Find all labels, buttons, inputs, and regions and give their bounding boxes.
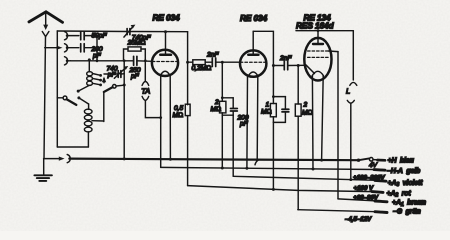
capacitor 2nF (coupling 1) [212, 58, 240, 67]
svg-text:+60–80V: +60–80V [353, 195, 379, 202]
switch S2 (right, regeneration) [92, 77, 126, 122]
svg-text:2nF: 2nF [206, 51, 219, 58]
capacitor 200pF (parallel) [231, 109, 238, 112]
wire: anode U2 to coupling node 2 [253, 31, 273, 65]
coil L2 lower (4 loops) [79, 98, 92, 147]
wire: main bus +H [69, 157, 358, 164]
wire: grid node down to bus [123, 61, 125, 159]
capacitor (parallel with 1MOhm) [282, 109, 289, 112]
capacitor 50pF [81, 32, 97, 40]
variable capacitor 740pF (feedback, top) [124, 25, 135, 37]
wire: left return vertical [56, 31, 58, 147]
switch heater +H [357, 158, 385, 162]
svg-text:MΩ: MΩ [173, 112, 184, 119]
resistor 2MOhm (grid leak U3) [295, 66, 301, 210]
svg-text:2: 2 [214, 99, 219, 106]
svg-text:RES 164d: RES 164d [296, 21, 334, 31]
svg-text:–4,5–12V: –4,5–12V [345, 216, 372, 223]
jack 1 (50pF input) [65, 32, 79, 40]
svg-text:MΩ: MΩ [261, 109, 272, 116]
svg-text:+100–200V: +100–200V [353, 174, 385, 181]
node grid U3 [297, 64, 300, 67]
svg-text:RE 034: RE 034 [153, 12, 181, 22]
wire: rail -H.A gelb [161, 167, 385, 171]
jack 3 (direct input) [65, 57, 71, 65]
tube U3 RE134/RES164d (output) [304, 29, 331, 169]
svg-text:L: L [346, 87, 350, 96]
switch S1 (left, coil tap selector) [57, 90, 80, 105]
wire: bottom return [57, 146, 88, 148]
wire: rail -G [298, 210, 387, 213]
svg-text:25MΩ: 25MΩ [127, 40, 146, 47]
wire: grid line [71, 59, 153, 62]
wire: rail +A3 [233, 176, 386, 181]
wire: input caps junction vertical [96, 36, 99, 63]
jack 2 (200pF input) [65, 44, 79, 52]
svg-text:+100 V: +100 V [354, 185, 374, 192]
svg-text:TA: TA [141, 86, 150, 95]
svg-text:4V: 4V [369, 162, 378, 169]
wire: anode U3 to speaker [296, 31, 353, 80]
coil taps with studs [93, 74, 103, 87]
svg-text:–H-A gelb: –H-A gelb [387, 168, 421, 175]
tube U1 RE034 (audion) [152, 32, 178, 168]
capacitor 200pF [81, 44, 97, 52]
wire: cap branch down to +A3 rail [232, 115, 234, 176]
wire: top line corner down to coupling node [187, 32, 189, 63]
svg-text:MΩ: MΩ [211, 106, 222, 113]
node grid U2 [221, 61, 224, 64]
wire: screen grid to +A1 rail [328, 51, 338, 199]
antenna [29, 12, 63, 30]
svg-text:2nF: 2nF [279, 55, 292, 62]
variable capacitor 740pF (tuning) [104, 66, 128, 78]
jack earth with plug arrow [44, 155, 72, 163]
capacitor 2nF (coupling 2) [273, 61, 304, 70]
jack L upper (loudspeaker) [350, 82, 357, 85]
resistor 25MOhm (grid leak) [124, 47, 146, 61]
svg-text:–G grün: –G grün [393, 209, 421, 216]
node coupling 2 [272, 64, 275, 67]
wire: feedback top line [57, 30, 187, 33]
node anode U1 on top wire [164, 30, 167, 33]
svg-text:pF: pF [107, 71, 117, 78]
svg-text:2: 2 [303, 102, 308, 109]
svg-text:50pF: 50pF [92, 33, 108, 40]
svg-text:RE 034: RE 034 [240, 13, 268, 23]
svg-text:+H blau: +H blau [388, 157, 415, 164]
jack antenna [42, 32, 49, 159]
resistor 2MOhm with 200pF (grid leak U2) [220, 62, 234, 168]
ground [34, 159, 52, 181]
resistor 0.2MOhm (grid stopper) [188, 60, 212, 65]
svg-text:0,2MΩ: 0,2MΩ [192, 65, 212, 72]
svg-text:MΩ: MΩ [302, 110, 313, 117]
node coil top on grid line [88, 58, 91, 61]
node coupling 1 [186, 61, 189, 64]
jack TA lower [142, 96, 162, 119]
resistor 1MOhm with capacitor (anode load U2) [270, 66, 285, 190]
wire: rail +A1 [338, 199, 387, 202]
svg-text:pF: pF [130, 73, 140, 80]
resistor 0.5MOhm (anode load U1) [185, 62, 190, 185]
coil L1 upper (3 loops with taps) [78, 60, 92, 91]
antenna plug arrow into jack 2 [45, 46, 63, 50]
capacitor 250pF (grid condenser) [134, 56, 137, 65]
wire: rail +A2 [188, 186, 383, 193]
tube U2 RE034 (NF amp) [240, 31, 266, 168]
jack L lower (loudspeaker) [347, 100, 354, 181]
jack TA upper [142, 61, 149, 86]
